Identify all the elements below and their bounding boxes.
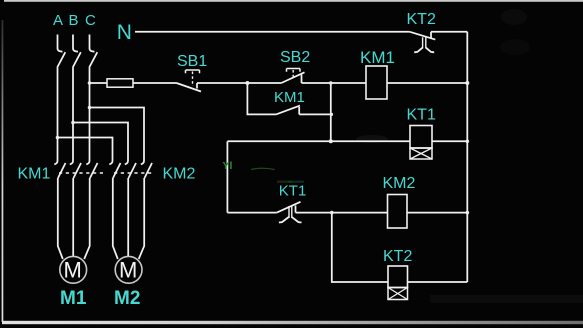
svg-text:KM1: KM1 bbox=[274, 89, 305, 106]
svg-text:M: M bbox=[64, 258, 82, 283]
svg-text:B: B bbox=[69, 12, 79, 29]
svg-text:M2: M2 bbox=[114, 288, 140, 309]
svg-text:N: N bbox=[117, 21, 132, 44]
svg-text:M: M bbox=[119, 258, 137, 283]
svg-text:Yl: Yl bbox=[223, 160, 233, 172]
svg-text:KM2: KM2 bbox=[383, 175, 416, 192]
svg-text:SB1: SB1 bbox=[177, 53, 207, 70]
svg-text:M1: M1 bbox=[60, 288, 87, 309]
svg-text:KM2: KM2 bbox=[163, 166, 196, 183]
svg-text:KM1: KM1 bbox=[18, 166, 51, 183]
svg-text:KT1: KT1 bbox=[407, 107, 436, 124]
svg-text:KM1: KM1 bbox=[360, 48, 395, 67]
svg-text:KT1: KT1 bbox=[279, 183, 307, 200]
svg-text:A: A bbox=[53, 12, 63, 29]
svg-text:KT2: KT2 bbox=[383, 248, 412, 265]
svg-text:KT2: KT2 bbox=[407, 11, 436, 28]
svg-text:C: C bbox=[85, 12, 96, 29]
svg-text:SB2: SB2 bbox=[280, 49, 310, 66]
